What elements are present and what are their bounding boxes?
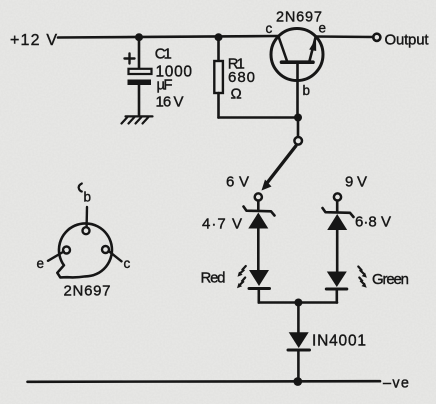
capacitor C1: [125, 37, 152, 116]
svg-text:c: c: [124, 256, 131, 271]
svg-text:µF: µF: [157, 77, 173, 94]
label R1 value: [228, 56, 255, 103]
switch S1 pole: [294, 137, 302, 145]
switch contact 9V: [334, 193, 341, 200]
wire base node to switch pole: [297, 118, 300, 137]
terminal Output: [373, 34, 380, 41]
wire -ve rail: [28, 380, 381, 383]
svg-text:Ω: Ω: [231, 86, 242, 103]
svg-text:Green: Green: [372, 271, 409, 288]
ground: [122, 116, 153, 123]
svg-text:C1: C1: [155, 46, 172, 63]
svg-text:–ve: –ve: [383, 376, 409, 392]
label C1 value: [155, 46, 193, 111]
wire join to diode: [297, 303, 300, 333]
svg-text:680: 680: [228, 69, 255, 86]
LED D3 light arrows: [237, 266, 246, 288]
wire top rail left: [58, 36, 279, 38]
svg-text:Red: Red: [201, 270, 226, 287]
svg-text:e: e: [319, 21, 327, 36]
svg-text:2N697: 2N697: [64, 283, 111, 300]
LED D4 light arrows: [358, 267, 367, 288]
wire R1 bottom to base node: [219, 116, 299, 119]
svg-text:+12 V: +12 V: [10, 32, 57, 49]
wire LED join horizontal: [259, 301, 337, 304]
svg-text:e: e: [37, 256, 45, 271]
svg-text:4·7 V: 4·7 V: [202, 216, 242, 233]
transistor pinout 2N697: [48, 184, 122, 278]
svg-text:6·8 V: 6·8 V: [355, 214, 391, 231]
LED D4 Green: [326, 272, 347, 303]
junction dot base node: [294, 114, 302, 122]
zener D2 6.8V: [323, 201, 354, 272]
switch contact 6V: [255, 193, 262, 200]
svg-text:b: b: [84, 190, 92, 205]
LED D3 Red: [249, 270, 270, 303]
svg-text:9 V: 9 V: [345, 174, 367, 191]
junction dot LED join: [294, 299, 302, 307]
junction dot -ve rail: [293, 377, 302, 386]
zener D1 4.7V: [244, 201, 275, 270]
transistor Q1 2N697: [271, 29, 323, 118]
svg-text:16 V: 16 V: [156, 94, 184, 111]
wire top rail right (emitter to output): [316, 35, 374, 38]
svg-text:Output: Output: [385, 32, 430, 49]
junction dot R1 tap: [215, 33, 223, 41]
svg-text:2N697: 2N697: [276, 10, 322, 26]
svg-text:c: c: [266, 21, 273, 36]
svg-text:b: b: [303, 83, 311, 98]
resistor R1: [214, 37, 223, 118]
switch S1 arm: [262, 146, 296, 191]
junction dot C1 tap: [135, 33, 143, 41]
svg-text:IN4001: IN4001: [312, 333, 366, 350]
diode D5 IN4001: [288, 332, 310, 381]
svg-text:6 V: 6 V: [226, 174, 249, 191]
